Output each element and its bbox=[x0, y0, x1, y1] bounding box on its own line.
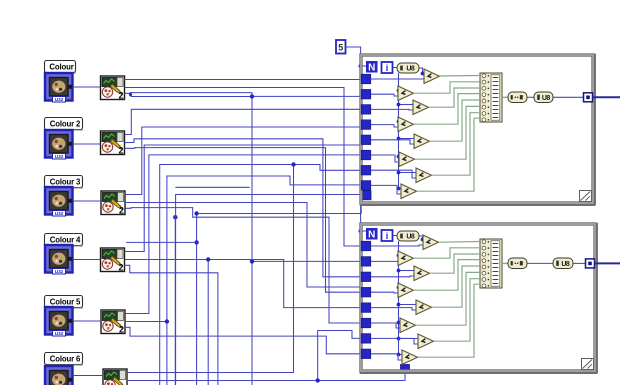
boolean-array-to-number loop1 bbox=[508, 92, 527, 103]
junction loop1 index branch 8 bbox=[397, 187, 401, 191]
junction loop2 index branch 8 bbox=[397, 353, 401, 357]
svg-text:2: 2 bbox=[118, 146, 123, 156]
wire loop2 U8 to comparator 1 bbox=[419, 236, 423, 240]
comparator 5 loop1 bbox=[414, 134, 430, 149]
svg-text:U8: U8 bbox=[542, 95, 551, 102]
build-array loop2 bbox=[480, 239, 502, 288]
wire boolean comparator3 to build-array loop1 bbox=[429, 88, 481, 107]
svg-text:U8: U8 bbox=[561, 261, 570, 268]
N count terminal loop2 bbox=[366, 228, 378, 241]
wire boolean comparator5 to build-array loop1 bbox=[430, 100, 481, 141]
wire boolean comparator1 to build-array loop1 bbox=[440, 75, 480, 78]
wire boolean array loop2 to converter bbox=[502, 262, 508, 264]
svg-text:U32: U32 bbox=[55, 211, 64, 216]
U8 conversion loop1 (index) bbox=[397, 63, 419, 73]
wire loop2 index stub to comparator 7 bbox=[399, 338, 419, 340]
junction loop1 index branch 2 bbox=[397, 89, 401, 93]
wire loop2 index stub to comparator 3 bbox=[399, 270, 415, 272]
wire boolean comparator2 to build-array loop2 bbox=[414, 248, 481, 258]
comparator 1 loop1 bbox=[424, 69, 440, 84]
wire loop2 index stub to comparator 5 bbox=[399, 304, 417, 306]
junction n6-A join bbox=[291, 162, 295, 166]
for-loop 2 frame bbox=[360, 223, 598, 374]
comparator 2 loop2 bbox=[398, 251, 414, 266]
wire loop2 tunnel 1 to comparator 1 bbox=[366, 245, 423, 246]
tunnel loop1 left 6 bbox=[361, 150, 370, 159]
wire loop2 index stub to comparator 6 bbox=[399, 322, 401, 324]
svg-text:5: 5 bbox=[338, 43, 343, 53]
junction n3-C drop bbox=[173, 215, 177, 219]
wire n1-C upper branch bbox=[125, 93, 253, 97]
svg-text:U32: U32 bbox=[55, 269, 64, 274]
wire loop1 i to U8 bbox=[392, 67, 397, 69]
comparator 5 loop2 bbox=[416, 300, 432, 315]
wire loop2 tunnel 2 to comparator 2 bbox=[366, 260, 398, 262]
junction loop2 U8 out bbox=[421, 238, 425, 242]
control Colour 4 (colour box terminal with label) bbox=[45, 234, 84, 275]
comparator 2 loop1 bbox=[398, 86, 414, 101]
wire boolean comparator7 to build-array loop1 bbox=[432, 113, 481, 176]
wire branch to loop1 N bbox=[361, 65, 366, 67]
wire n1-C branch tail below bbox=[251, 261, 253, 385]
control Colour 2 (colour box terminal with label) bbox=[45, 118, 84, 160]
wire loop2 tunnel 4 to comparator 4 bbox=[366, 291, 398, 294]
node colour-convert subVI 6 (icon '2') bbox=[103, 369, 127, 385]
wire boolean comparator8 to build-array loop2 bbox=[418, 284, 481, 357]
i iteration terminal loop2 bbox=[382, 230, 393, 241]
tunnel loop1 left 1 bbox=[361, 74, 370, 83]
comparator 4 loop2 bbox=[398, 283, 414, 298]
wire n2-C to loop2 tunnel 4 bbox=[125, 148, 367, 293]
wire loop1 output to right edge bbox=[593, 96, 620, 98]
wire loop1 U8 to comparator 1 bbox=[419, 68, 424, 74]
wire control Colour 1 to node 1 bbox=[73, 86, 101, 88]
wire boolean array loop1 to converter bbox=[502, 96, 508, 98]
wire n1-B to loop2 tunnel 1 bbox=[125, 88, 367, 247]
svg-text:i: i bbox=[386, 231, 389, 241]
wire loop2 tunnel 6 to comparator 6 bbox=[366, 323, 400, 328]
comparator 6 loop1 bbox=[399, 152, 415, 167]
wire offscreen riser to loop1 corner tunnel bbox=[176, 195, 362, 385]
tunnel loop2 left 5 bbox=[361, 303, 370, 312]
junction stray top bbox=[194, 211, 198, 215]
wire number to U8 loop2 bbox=[527, 262, 553, 264]
wire boolean comparator3 to build-array loop2 bbox=[430, 254, 481, 273]
wire control Colour 3 to node 3 bbox=[73, 200, 102, 202]
for-loop 1 frame bbox=[360, 54, 596, 206]
junction loop1 index branch 7 bbox=[397, 171, 401, 175]
junction at loop2 N feed bbox=[358, 229, 362, 233]
svg-text:Colour: Colour bbox=[49, 63, 73, 72]
control Colour 5 (colour box terminal with label) bbox=[45, 296, 84, 337]
svg-text:2: 2 bbox=[119, 325, 124, 335]
wire loop1 index stub to comparator 3 bbox=[399, 104, 414, 106]
comparator 4 loop1 bbox=[398, 117, 414, 132]
wire n5-A to loop1 tunnel 6 bbox=[125, 155, 366, 314]
junction loop2 index branch 2 bbox=[397, 254, 401, 258]
junction loop1 U8 out bbox=[421, 72, 425, 76]
wire control Colour 4 to node 4 bbox=[73, 259, 101, 261]
wire loop1 tunnel 2 to comparator 2 bbox=[366, 94, 398, 96]
junction n1-C branch bbox=[250, 94, 254, 98]
wire n3-A to loop1 tunnel 4 bbox=[125, 125, 366, 194]
node colour-convert subVI 5 (icon '2') bbox=[101, 310, 125, 335]
wire loop1 index stub to comparator 8 bbox=[399, 188, 402, 190]
junction n5-B tail bbox=[165, 319, 169, 323]
wire loop1 tunnel 7 to comparator 7 bbox=[366, 170, 416, 178]
svg-text:N: N bbox=[368, 230, 375, 241]
wire loop1 tunnel 3 to comparator 3 bbox=[366, 108, 413, 111]
wire boolean comparator4 to build-array loop1 bbox=[414, 94, 481, 125]
node colour-convert subVI 1 (icon '2') bbox=[101, 76, 125, 101]
tunnel loop2 left 6 bbox=[361, 318, 370, 327]
junction loop2 index branch 3 bbox=[397, 269, 401, 273]
constant 5 bbox=[336, 40, 346, 54]
exit tunnel loop1 bbox=[584, 93, 593, 102]
tunnel loop1 left 4 bbox=[361, 120, 370, 129]
svg-text:U8: U8 bbox=[406, 234, 415, 241]
wire n1-C lower branch bbox=[131, 96, 253, 98]
wire stray drop left of loop2 bbox=[196, 214, 198, 385]
control Colour 6 (colour box terminal with label) bbox=[45, 353, 84, 385]
svg-text:Colour 6: Colour 6 bbox=[50, 355, 81, 364]
wire constant 5 to loop N terminals bbox=[346, 47, 367, 231]
comparator 8 loop2 bbox=[402, 350, 418, 365]
wire feed to loop1 corner tunnel from below bbox=[197, 201, 362, 214]
junction loop1 index branch 5 bbox=[397, 137, 401, 141]
wire loop1 tunnel 4 to comparator 4 bbox=[366, 125, 398, 127]
node colour-convert subVI 4 (icon '2') bbox=[101, 248, 125, 273]
wire control Colour 2 to node 2 bbox=[73, 143, 101, 145]
tunnel loop2 left 4 bbox=[361, 288, 370, 297]
svg-text:Colour 3: Colour 3 bbox=[50, 178, 81, 187]
tunnel loop1 bottom-left corner bbox=[362, 191, 371, 200]
junction loop1 index branch 6 bbox=[397, 155, 401, 159]
control Colour (colour box terminal with label) bbox=[45, 61, 77, 103]
boolean-array-to-number loop2 bbox=[508, 258, 527, 269]
wire loop2 i to U8 bbox=[392, 235, 397, 237]
wire under-loop2 branch to bottom tunnel bbox=[318, 369, 405, 381]
wire n5-B to loop1 tunnel 8 bbox=[125, 176, 366, 322]
tunnel loop2 left 7 bbox=[361, 334, 370, 343]
wire loop2 tunnel 8 to comparator 8 bbox=[366, 354, 402, 360]
wire loop2 output to right edge bbox=[595, 262, 620, 264]
wire loop1 index stub to comparator 7 bbox=[399, 172, 417, 174]
wire n4-B drop bbox=[207, 260, 209, 385]
tunnel loop1 left 8 bbox=[361, 181, 370, 190]
wire loop2 tunnel 7 to comparator 7 bbox=[366, 338, 418, 344]
wire n1-A to loop1 tunnel 1 bbox=[125, 79, 372, 81]
wire boolean comparator7 to build-array loop2 bbox=[434, 279, 481, 342]
i iteration terminal loop1 bbox=[382, 62, 393, 73]
wire n5-C to loop2 tunnel 8 bbox=[125, 327, 366, 354]
svg-text:2: 2 bbox=[118, 91, 123, 101]
junction loop2 index branch 4 bbox=[397, 286, 401, 290]
comparator 3 loop2 bbox=[414, 266, 430, 281]
wire loop1 index stub to comparator 5 bbox=[399, 138, 415, 140]
tunnel loop2 left 2 bbox=[361, 257, 370, 266]
wire stray horizontal bbox=[126, 241, 197, 243]
wire n5-B tail below bbox=[166, 322, 168, 385]
comparator 7 loop1 bbox=[416, 168, 432, 183]
wire loop1 tunnel 1 to comparator 1 bbox=[366, 78, 424, 80]
comparator 3 loop1 bbox=[413, 100, 429, 115]
junction loop2 index branch 5 bbox=[397, 303, 401, 307]
U8 conversion loop1 (output) bbox=[534, 92, 553, 103]
wire boolean comparator6 to build-array loop1 bbox=[415, 106, 481, 159]
wire n1-C branch to loop2 tunnel 2 bbox=[252, 96, 366, 261]
junction loop2 index branch 7 bbox=[397, 337, 401, 341]
tunnel loop2 left 3 bbox=[361, 272, 370, 281]
wire n6-B to loop2 tunnel 7 bbox=[127, 331, 366, 381]
wire loop2 tunnel 3 to comparator 3 bbox=[366, 275, 414, 278]
U8 conversion loop2 (output) bbox=[553, 258, 573, 269]
comparator 7 loop2 bbox=[418, 334, 434, 349]
exit tunnel loop2 bbox=[586, 259, 595, 268]
wire n2-B to loop2 tunnel 3 bbox=[125, 139, 367, 277]
junction under-loop2 branch bbox=[316, 378, 320, 382]
wire U8 to exit tunnel loop2 bbox=[573, 262, 585, 264]
wire offscreen riser joining n6-A bbox=[160, 165, 294, 385]
wire number to U8 loop1 bbox=[527, 96, 534, 98]
build-array loop1 bbox=[480, 73, 502, 122]
svg-text:Colour 5: Colour 5 bbox=[50, 298, 81, 307]
wire loop1 i-index vertical distribution bbox=[398, 73, 400, 189]
wire control Colour 6 to node 6 bbox=[73, 375, 104, 377]
svg-text:U32: U32 bbox=[55, 154, 64, 159]
svg-text:N: N bbox=[368, 63, 375, 74]
svg-text:Colour 4: Colour 4 bbox=[50, 236, 81, 245]
svg-text:Colour 2: Colour 2 bbox=[50, 120, 81, 129]
svg-text:2: 2 bbox=[118, 263, 123, 273]
svg-text:U32: U32 bbox=[55, 331, 64, 336]
junction n4-B drop bbox=[206, 257, 210, 261]
comparator 1 loop2 bbox=[423, 235, 439, 250]
wire n3-C to loop2 tunnel 6 bbox=[125, 208, 366, 323]
wire boolean comparator6 to build-array loop2 bbox=[416, 272, 481, 325]
wire boolean comparator8 to build-array loop1 bbox=[417, 118, 481, 191]
wire loop2 index stub to comparator 8 bbox=[399, 354, 403, 356]
wire boolean comparator2 to build-array loop1 bbox=[414, 82, 481, 93]
wire n3-B to loop2 tunnel 4 jog bbox=[125, 203, 366, 293]
wire n4-C down mid mesh bbox=[125, 265, 218, 385]
tunnel loop1 left 7 bbox=[361, 166, 370, 175]
wire U8 to exit tunnel loop1 bbox=[553, 96, 583, 98]
svg-text:U32: U32 bbox=[55, 97, 64, 102]
junction stray cross bbox=[194, 240, 198, 244]
wire short row joining mid drop bbox=[175, 186, 249, 188]
comparator 8 loop1 bbox=[401, 184, 417, 199]
wire control Colour 5 to node 5 bbox=[73, 320, 102, 322]
junction loop1 index branch 3 bbox=[397, 103, 401, 107]
control Colour 3 (colour box terminal with label) bbox=[45, 176, 84, 217]
wire loop1 tunnel 5 to comparator 5 bbox=[366, 140, 414, 144]
U8 conversion loop2 (index) bbox=[397, 231, 419, 241]
wire n6-A to loop1 tunnel 7 bbox=[127, 165, 366, 373]
wire n4-B to loop2 tunnel 5 bbox=[125, 260, 367, 308]
tunnel loop1 left 5 bbox=[361, 135, 370, 144]
junction n1-C fork bbox=[129, 93, 132, 96]
tunnel loop1 left 3 bbox=[361, 105, 370, 114]
wire loop1 tunnel 6 to comparator 6 bbox=[366, 155, 399, 162]
node colour-convert subVI 3 (icon '2') bbox=[101, 191, 125, 216]
tunnel loop2 left 1 bbox=[361, 241, 370, 250]
tunnel loop2 bottom bbox=[401, 365, 410, 374]
junction at loop1 N feed bbox=[358, 64, 362, 68]
comparator 6 loop2 bbox=[400, 318, 416, 333]
wire loop1 tunnel 8 to comparator 8 bbox=[366, 185, 401, 194]
svg-text:U8: U8 bbox=[406, 66, 415, 73]
junction n1-C tail bbox=[250, 259, 254, 263]
wire boolean comparator5 to build-array loop2 bbox=[432, 266, 481, 307]
tunnel loop1 left 2 bbox=[361, 90, 370, 99]
wire n3-C crossing drop bbox=[174, 217, 176, 385]
tunnel loop2 left 8 bbox=[361, 349, 370, 358]
junction loop1 index branch 4 bbox=[397, 120, 401, 124]
wire n1-C to loop1 tunnel 2 bbox=[252, 95, 366, 97]
wire n4-A to loop1 tunnel 5 bbox=[125, 140, 367, 251]
wire n2-A to loop1 tunnel 3 bbox=[125, 109, 367, 134]
wire loop2 tunnel 5 to comparator 5 bbox=[366, 308, 416, 310]
wire loop2 i-index vertical distribution bbox=[398, 241, 400, 355]
N count terminal loop1 bbox=[366, 61, 378, 74]
wire boolean comparator1 to build-array loop2 bbox=[439, 241, 480, 244]
junction loop2 index branch 6 bbox=[397, 321, 401, 325]
svg-text:i: i bbox=[386, 63, 389, 73]
wire boolean comparator4 to build-array loop2 bbox=[414, 260, 481, 291]
node colour-convert subVI 2 (icon '2') bbox=[101, 131, 125, 156]
svg-text:2: 2 bbox=[119, 206, 124, 216]
